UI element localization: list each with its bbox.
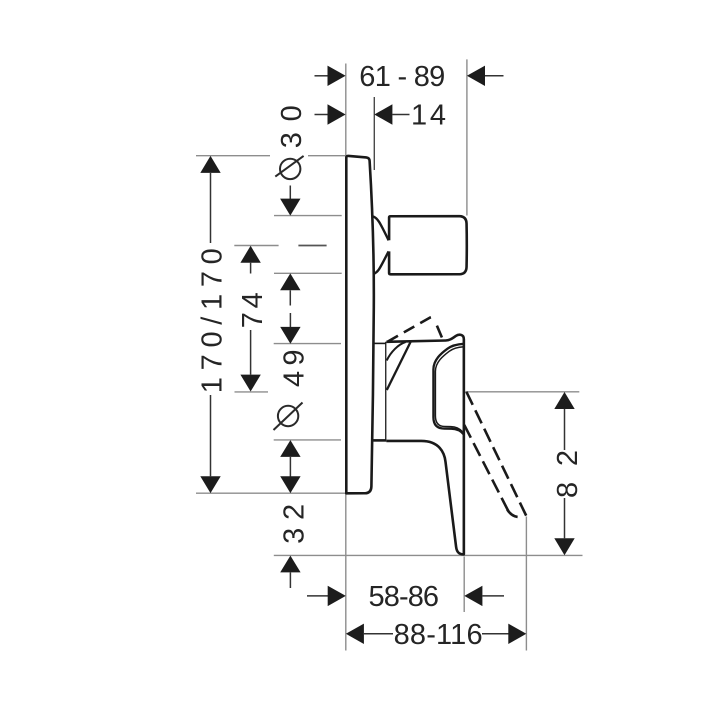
sleeve front rim xyxy=(385,342,388,441)
knob neck bottom curve xyxy=(374,251,389,273)
dimension dia 49 and 32 column xyxy=(280,313,300,588)
dimension 88-116 xyxy=(346,624,526,644)
diverter knob xyxy=(389,216,467,274)
svg-text:49: 49 xyxy=(279,349,311,387)
svg-text:82: 82 xyxy=(552,450,584,498)
grip opening inner contour xyxy=(435,347,464,432)
dashed lever down position edge B xyxy=(464,425,508,511)
dimension 82 xyxy=(554,392,574,555)
dimension 58-86 xyxy=(307,586,504,606)
handle body outline xyxy=(386,335,463,555)
dashed lever tip cap dash xyxy=(507,510,517,517)
dashed lever up position xyxy=(388,317,434,342)
dimension 14 xyxy=(315,104,410,124)
wire knob bottom extension xyxy=(274,272,342,274)
svg-text:170/170: 170/170 xyxy=(197,248,229,393)
dimension 74 xyxy=(240,246,260,392)
wire handle bottom extension xyxy=(274,554,583,556)
sleeve top edge xyxy=(374,342,387,344)
knob neck top curve xyxy=(373,216,389,240)
lever base fillet curve xyxy=(387,342,406,361)
wire right extension line 61-89 xyxy=(466,59,468,215)
grip opening outer contour xyxy=(433,344,464,435)
dimension 61-89 xyxy=(315,66,504,86)
dimension 170/170 xyxy=(200,156,220,493)
dashed lever up tip descend dash xyxy=(437,326,442,338)
wire wall extension line left xyxy=(345,64,347,651)
sleeve bottom edge xyxy=(373,439,386,442)
wire 82 top extension xyxy=(465,391,579,393)
lever arm solid edge xyxy=(387,341,411,390)
svg-text:61 - 89: 61 - 89 xyxy=(359,61,445,93)
wire plate top extension xyxy=(196,155,270,157)
dashed lever down position edge A xyxy=(466,392,526,517)
svg-text:74: 74 xyxy=(237,292,269,328)
wire plate face line 14 xyxy=(373,97,375,170)
wire lever tip extension xyxy=(525,517,527,651)
diameter symbol 30 xyxy=(275,156,303,179)
svg-text:88-116: 88-116 xyxy=(394,619,483,651)
svg-text:30: 30 xyxy=(276,105,308,148)
diameter symbol 49 xyxy=(274,403,303,431)
wire handle edge extension bottom xyxy=(463,557,465,613)
wire valve center extension left xyxy=(235,391,269,393)
svg-text:14: 14 xyxy=(411,100,446,132)
wire knob centerline xyxy=(234,245,278,247)
svg-text:32: 32 xyxy=(279,504,311,544)
escutcheon plate outline xyxy=(346,156,374,493)
wire sleeve bottom extension xyxy=(274,439,341,441)
wire plate bottom extension xyxy=(196,492,346,494)
wire knob top extension xyxy=(274,215,342,217)
svg-text:58-86: 58-86 xyxy=(369,581,440,613)
wire sleeve top extension xyxy=(274,343,341,345)
dimension dia 30 xyxy=(280,186,300,306)
